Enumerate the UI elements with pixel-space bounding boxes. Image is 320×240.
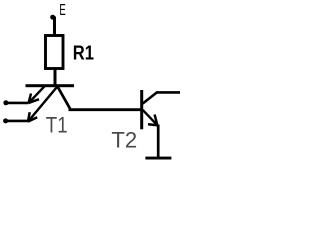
wire E to R1 bbox=[53, 17, 56, 36]
T1 emitter 1 line bbox=[29, 86, 45, 103]
T2 collector line bbox=[143, 92, 180, 103]
input node dot 1 bbox=[3, 100, 8, 105]
ground bar bbox=[145, 157, 171, 160]
T2 emitter wire to ground bbox=[157, 125, 160, 159]
input wire 2 bbox=[6, 120, 28, 123]
svg-text:T2: T2 bbox=[111, 128, 137, 153]
input node dot 2 bbox=[3, 118, 8, 123]
terminal dot E bbox=[50, 15, 55, 20]
T1 collector wire to T2 base bbox=[58, 87, 142, 110]
transistor T2 base bar bbox=[140, 90, 143, 129]
T1 emitter 1 arrowhead bbox=[29, 94, 39, 104]
svg-text:T1: T1 bbox=[46, 112, 68, 137]
input wire 1 bbox=[6, 102, 29, 105]
resistor R1 bbox=[46, 36, 64, 69]
svg-text:R1: R1 bbox=[73, 41, 94, 64]
transistor T1 base bar bbox=[26, 84, 75, 87]
wire R1 to T1 base bbox=[54, 69, 57, 86]
T2 emitter arrowhead bbox=[148, 115, 157, 126]
T2 emitter line bbox=[143, 110, 158, 125]
svg-text:E: E bbox=[59, 2, 65, 19]
T1 emitter 2 line bbox=[28, 86, 58, 121]
T1 emitter 2 arrowhead bbox=[28, 112, 37, 121]
